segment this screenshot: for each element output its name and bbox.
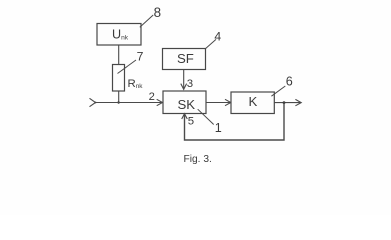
label 6 with leader line bbox=[271, 74, 292, 96]
box SF bbox=[163, 49, 206, 70]
svg-text:1: 1 bbox=[215, 121, 222, 135]
arrowhead 5 up into SK bbox=[182, 114, 188, 119]
box U8 (voltage source Unk) bbox=[97, 24, 141, 46]
input terminal arrowhead bbox=[90, 98, 97, 106]
box SK (comparator) bbox=[163, 91, 206, 114]
label 4 with leader line bbox=[205, 30, 222, 50]
svg-text:SF: SF bbox=[177, 51, 194, 66]
box K bbox=[231, 92, 274, 114]
output wire bbox=[274, 102, 301, 104]
junction node (input line / Rnk) bbox=[117, 101, 119, 103]
wire Rnk to junction bbox=[118, 91, 120, 104]
label 8 with leader line bbox=[140, 5, 161, 27]
svg-text:7: 7 bbox=[137, 50, 144, 64]
svg-text:8: 8 bbox=[154, 5, 161, 20]
arrowhead 2 into SK bbox=[157, 99, 163, 105]
svg-text:2: 2 bbox=[149, 91, 155, 103]
svg-text:4: 4 bbox=[214, 30, 221, 44]
svg-text:SK: SK bbox=[178, 97, 196, 112]
arrowhead 3 down into SK bbox=[181, 84, 187, 90]
wire SK to K bbox=[206, 102, 231, 104]
label 7 with leader line bbox=[118, 50, 144, 74]
svg-text:3: 3 bbox=[187, 78, 193, 90]
wire Unk to Rnk bbox=[118, 45, 120, 65]
svg-text:K: K bbox=[249, 94, 258, 109]
input wire to SK bbox=[96, 102, 163, 104]
junction node (output / feedback) bbox=[283, 101, 286, 104]
svg-text:6: 6 bbox=[286, 74, 293, 88]
svg-text:5: 5 bbox=[188, 115, 194, 127]
wire SF to SK bbox=[183, 70, 185, 90]
resistor Rnk bbox=[113, 65, 125, 92]
label 1 with leader line bbox=[198, 109, 222, 135]
output arrowhead bbox=[295, 99, 301, 105]
svg-text:Fig. 3.: Fig. 3. bbox=[184, 154, 212, 165]
arrowhead into K bbox=[225, 99, 231, 105]
feedback wire (output to SK) bbox=[185, 103, 285, 140]
